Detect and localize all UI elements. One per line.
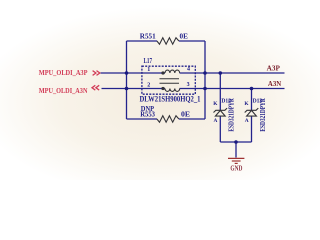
- junction node P-diode: [219, 71, 223, 75]
- svg-text:DLW21SH900HQ2_1: DLW21SH900HQ2_1: [140, 95, 201, 104]
- svg-text:ESD321DPYR: ESD321DPYR: [260, 98, 267, 131]
- polarity dot bottom winding: [162, 87, 164, 89]
- diode D13 body (zener bar + triangle): [245, 108, 259, 112]
- svg-text:R551: R551: [140, 33, 156, 41]
- svg-text:2: 2: [147, 82, 150, 88]
- svg-text:L17: L17: [144, 57, 153, 65]
- wire gnd stub: [235, 142, 237, 158]
- svg-text:0E: 0E: [181, 111, 190, 119]
- svg-text:4: 4: [187, 67, 190, 73]
- inductor L17 top winding body: [165, 70, 180, 73]
- svg-text:0E: 0E: [180, 33, 189, 41]
- resistor R553 lead wires: [127, 118, 158, 120]
- junction node gnd: [234, 140, 238, 144]
- ground GND symbol: [228, 158, 244, 163]
- svg-text:K: K: [244, 101, 249, 107]
- svg-text:ESD321DPYR: ESD321DPYR: [229, 98, 236, 131]
- diode D12 vertical wire: [219, 73, 221, 110]
- svg-text:A: A: [214, 118, 218, 124]
- polarity dot top winding: [162, 72, 164, 74]
- svg-text:GND: GND: [230, 165, 242, 173]
- svg-text:A3N: A3N: [268, 80, 281, 88]
- svg-text:A3P: A3P: [267, 65, 281, 73]
- wire N line right segment: [180, 88, 285, 90]
- svg-text:3: 3: [187, 82, 190, 88]
- svg-text:K: K: [213, 101, 218, 107]
- wire N line left segment: [102, 88, 166, 90]
- choke L17 dashed box: [142, 66, 195, 94]
- junction node N-diode: [250, 87, 254, 91]
- svg-text:MPU_OLDI_A3N: MPU_OLDI_A3N: [39, 87, 88, 95]
- junction node N-left: [125, 87, 129, 91]
- svg-text:R553: R553: [140, 111, 155, 119]
- diode D13 vertical wire: [251, 89, 253, 111]
- wire diode anodes to gnd junction: [220, 141, 251, 143]
- inductor L17 bottom winding body: [165, 89, 180, 92]
- svg-text:A: A: [245, 118, 249, 124]
- diode D12 body (zener bar + triangle): [214, 108, 228, 112]
- junction node P-left: [125, 71, 129, 75]
- junction node P-right: [203, 71, 207, 75]
- wire P line left segment: [101, 72, 166, 74]
- resistor R551 zigzag body: [157, 38, 179, 45]
- port connector MPU_OLDI_A3P chevrons: [92, 71, 100, 91]
- wire left bypass vertical: [126, 41, 128, 119]
- svg-text:1: 1: [147, 67, 150, 73]
- resistor R553 zigzag body: [157, 116, 179, 123]
- resistor R551 lead wires: [127, 40, 158, 42]
- junction node N-right: [203, 87, 207, 91]
- wire P line right segment: [180, 72, 285, 74]
- svg-text:MPU_OLDI_A3P: MPU_OLDI_A3P: [39, 69, 88, 77]
- wire right bypass vertical: [204, 41, 206, 119]
- inductor L17 core lines: [160, 78, 180, 80]
